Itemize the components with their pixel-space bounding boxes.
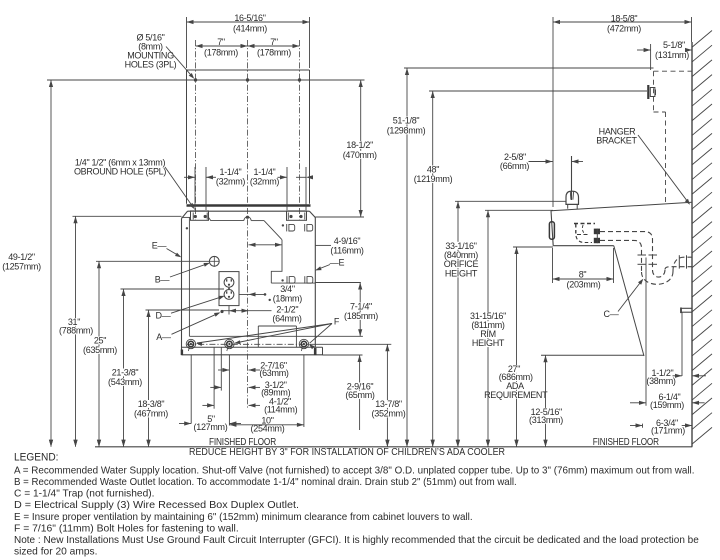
dimension 25 (635mm) [82,261,209,447]
svg-text:LEGEND:: LEGEND: [14,452,59,464]
dimension 21-3/8 (543mm) [107,289,224,447]
svg-text:(313mm): (313mm) [529,415,563,425]
cooler base strip [181,347,323,355]
label mounting holes [125,33,195,79]
svg-text:13-7/8": 13-7/8" [375,399,402,409]
cooler front face [551,211,553,246]
dimension 3/4 (18mm) [240,284,303,304]
bubbler [566,191,579,209]
dimension 1-1/4 (32mm) pair [184,167,313,210]
svg-text:21-3/8": 21-3/8" [112,368,139,378]
svg-text:49-1/2": 49-1/2" [8,252,35,262]
wall mounting plate outline [187,70,310,204]
cooler top right extension line [315,216,364,218]
stray dots [186,227,271,301]
dimension 12-5/16 (313mm) [526,355,566,447]
svg-text:7": 7" [270,37,278,47]
svg-text:D—: D— [156,311,171,321]
mounting hole horizontal line [47,79,365,81]
svg-text:(543mm): (543mm) [108,377,142,387]
svg-text:18-1/2": 18-1/2" [346,140,373,150]
bolt hole F left [186,339,195,351]
drain tailpiece line [645,258,647,406]
svg-text:(1298mm): (1298mm) [387,126,426,136]
dimension 2-1/2 (64mm) [222,305,302,324]
label obround hole [74,158,194,210]
svg-text:(32mm): (32mm) [250,177,280,187]
legend text block [14,452,699,558]
svg-text:16-5/16": 16-5/16" [234,13,265,23]
finished floor line [95,446,692,448]
svg-text:B = Recommended Waste Outlet l: B = Recommended Waste Outlet location. T… [14,476,517,488]
inner panel left edge and bottom [189,217,363,336]
finished floor text right [593,437,659,448]
inner panel top edge [182,216,283,240]
svg-text:B—: B— [155,275,170,285]
dimension 31-15/16 rim height [466,210,511,446]
svg-text:(185mm): (185mm) [344,311,378,321]
left obround slot assembly [191,211,209,220]
waste outlet B circle [209,256,219,267]
svg-text:sized for 20 amps.: sized for 20 amps. [14,546,98,558]
dimension 5-1/8 (131mm) [637,40,692,70]
mounting hole centerlines [196,40,300,220]
dimension 18-5/8 (472mm) [553,14,692,208]
finished floor text left [209,437,276,448]
louver slots upper pair [282,224,313,231]
svg-text:51-1/8": 51-1/8" [393,116,420,126]
dimension 7 inch left and right (178mm) [196,37,300,57]
svg-text:(470mm): (470mm) [343,150,377,160]
svg-text:(66mm): (66mm) [500,161,530,171]
svg-text:F: F [334,317,340,327]
right obround slot assembly [287,211,307,220]
svg-text:REDUCE HEIGHT BY 3" FOR INSTAL: REDUCE HEIGHT BY 3" FOR INSTALLATION OF … [189,447,505,458]
bolt extension line y344 [310,343,391,345]
label C [604,279,644,319]
waste piping dashed [600,232,653,272]
dimension 49-1/2 (1257mm) [2,80,53,447]
svg-text:C—: C— [604,309,619,319]
outlet upper receptacle [224,277,234,287]
dimension 8 (203mm) [553,248,614,290]
dimension 2-9/16 (65mm) [342,355,378,430]
label E right [315,258,344,271]
svg-text:(178mm): (178mm) [257,47,291,57]
stub extension line [681,312,683,376]
rim height extension [485,209,553,211]
trap union ticks [638,255,658,264]
svg-text:5-1/8": 5-1/8" [663,40,685,50]
cooler bottom rear line [541,354,644,356]
dimension 18-1/2 (470mm) [342,80,378,217]
dimension 51-1/8 (1298mm) [386,68,654,447]
dimension 6-3/4 (171mm) [630,418,692,436]
svg-text:(203mm): (203mm) [567,280,601,290]
water supply A point [220,310,223,313]
svg-text:(467mm): (467mm) [134,409,168,419]
push button [549,222,554,239]
svg-text:(159mm): (159mm) [650,400,684,410]
svg-text:C = 1-1/4" Trap (not furnished: C = 1-1/4" Trap (not furnished). [14,488,155,500]
svg-text:(64mm): (64mm) [272,314,302,324]
slot extension line y282 [315,282,361,284]
svg-text:4-9/16": 4-9/16" [334,236,361,246]
floor arrows left [49,440,151,447]
svg-text:HEIGHT: HEIGHT [472,338,505,348]
shut-off valve assembly [574,224,600,244]
label F right and leaders [196,317,340,350]
svg-text:HEIGHT: HEIGHT [445,268,478,278]
svg-text:(38mm): (38mm) [646,376,676,386]
svg-text:(635mm): (635mm) [83,345,117,355]
svg-text:BRACKET: BRACKET [596,136,637,146]
dimension 2-7/16 (63mm) [218,361,289,378]
svg-text:(32mm): (32mm) [216,177,246,187]
svg-text:(171mm): (171mm) [651,426,685,436]
svg-text:F = 7/16" (11mm) Bolt Holes fo: F = 7/16" (11mm) Bolt Holes for fastenin… [14,522,239,534]
label B left [155,263,210,285]
svg-text:7": 7" [217,37,225,47]
cooler top surface [551,202,692,210]
bolt hole F right [299,339,308,351]
svg-text:3/4": 3/4" [280,284,295,294]
dimension 2-5/8 (66mm) [500,152,583,200]
dimension 5 (127mm) [179,414,241,432]
outlet lower receptacle [224,288,234,300]
louver slots lower pair [281,276,312,283]
electrical outlet box [219,272,239,306]
svg-text:1-1/4": 1-1/4" [220,167,242,177]
svg-text:—E: —E [330,258,345,268]
svg-text:(472mm): (472mm) [607,24,641,34]
dimension 7-1/4 (185mm) [343,283,379,337]
svg-text:A—: A— [156,332,171,342]
cooler body outline [182,211,316,351]
extension lines below cooler [191,347,304,427]
trap C (dashed P-trap) [642,255,694,284]
label E left [152,241,181,258]
svg-text:(65mm): (65mm) [345,390,375,400]
dimension 6-1/4 (159mm) [630,392,705,410]
feature line y336 [315,335,363,337]
svg-text:48": 48" [427,165,439,175]
svg-text:OBROUND HOLE (5PL): OBROUND HOLE (5PL) [74,167,166,177]
mounting holes (3PL) [194,78,301,81]
dimension 16-5/16 (414mm) [187,13,310,68]
svg-text:(352mm): (352mm) [372,409,406,419]
dimension 3-1/2 (89mm) [210,380,290,398]
bolt centerline [187,343,309,345]
svg-text:(127mm): (127mm) [194,422,228,432]
base extension line y355 [323,354,363,356]
svg-text:(178mm): (178mm) [204,47,238,57]
svg-text:(1257mm): (1257mm) [2,262,41,272]
svg-text:1-1/4": 1-1/4" [254,167,276,177]
wall stud [648,85,655,99]
dimension 31 (788mm) [58,216,181,446]
cooler bottom diagonal [614,246,644,356]
svg-text:(116mm): (116mm) [330,246,364,256]
dimension 27 ada requirement [484,247,548,447]
svg-text:8": 8" [579,270,587,280]
wall line [691,42,693,447]
dimension 1-1/2 (38mm) [646,368,706,386]
dimension 18-3/8 (467mm) [133,310,219,447]
orifice height extension [455,200,566,202]
svg-text:7-1/4": 7-1/4" [350,302,372,312]
svg-text:(254mm): (254mm) [251,424,285,434]
dimension 33-1/16 orifice height [441,201,481,446]
svg-text:A = Recommended Water Supply l: A = Recommended Water Supply location. S… [14,464,695,476]
reduce height note [189,447,505,458]
svg-text:(414mm): (414mm) [233,23,267,33]
svg-text:REQUIREMENT: REQUIREMENT [484,390,548,400]
svg-text:HOLES (3PL): HOLES (3PL) [125,60,177,70]
ada extension [513,246,553,248]
svg-text:(18mm): (18mm) [273,294,303,304]
svg-text:FINISHED FLOOR: FINISHED FLOOR [593,437,659,448]
svg-text:D = Electrical Supply (3) Wire: D = Electrical Supply (3) Wire Recessed … [14,499,299,511]
svg-text:18-3/8": 18-3/8" [138,399,165,409]
svg-text:(788mm): (788mm) [59,326,93,336]
dimension 13-7/8 (352mm) [371,344,407,447]
label A left [156,312,220,342]
hanger bracket label [596,127,690,205]
svg-text:25": 25" [94,336,106,346]
wall plate bottom edge (thick) [187,204,311,207]
dimension 10 (254mm) [229,415,304,433]
svg-text:(131mm): (131mm) [655,50,689,60]
hanger bracket dashed outline [654,71,692,203]
waste stub at wall [681,308,692,314]
svg-text:(114mm): (114mm) [264,404,298,414]
svg-text:(63mm): (63mm) [259,368,289,378]
inner bottom rectangle [258,326,296,347]
inner panel right steps [271,240,315,283]
dimension 4-9/16 (116mm) [249,236,364,256]
dimension 4-1/2 (114mm) [202,397,297,415]
svg-text:E—: E— [152,241,167,251]
svg-text:(1219mm): (1219mm) [414,174,453,184]
svg-text:Note : New Installations Must: Note : New Installations Must Use Ground… [14,534,699,546]
svg-text:E = Insure proper ventilation: E = Insure proper ventilation by maintai… [14,511,473,523]
wall hatching [692,31,712,444]
label D left [156,296,225,321]
dimension 48 (1219mm) [413,91,647,447]
cooler vertical centerline [247,208,249,409]
bolt hole F center [225,339,234,351]
floor arrows right [385,440,547,447]
svg-text:18-5/8": 18-5/8" [611,14,638,24]
cooler bottom front [553,245,614,247]
